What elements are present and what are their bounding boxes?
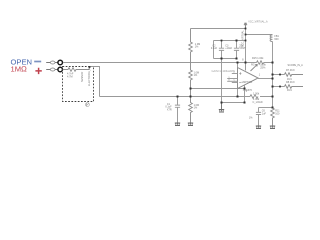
pin 8 power feed	[245, 63, 247, 71]
wire row2	[273, 86, 285, 88]
resistor R11 right column	[271, 108, 275, 126]
capacitor C3	[234, 41, 239, 59]
junction divider-feedback	[190, 88, 192, 90]
wire ferrite down to rail	[272, 42, 274, 63]
capacitor C6	[256, 108, 261, 127]
junction C3-bottom	[236, 58, 238, 60]
svg-text:LMP7701: LMP7701	[242, 81, 253, 84]
wire y58 cap bottom rail	[214, 58, 237, 60]
minus mark	[239, 82, 241, 84]
shield marker below box	[86, 103, 90, 107]
junction row2-lead	[279, 86, 281, 88]
svg-text:TANT: TANT	[239, 47, 246, 50]
pin 4 power drop	[244, 85, 246, 102]
resistor R2 top of divider	[189, 29, 193, 63]
ground under C6	[256, 126, 261, 129]
capacitor C2	[219, 41, 224, 59]
svg-text:100: 100	[275, 112, 280, 115]
op-amp U1 triangle	[238, 68, 259, 89]
junction divider-bus	[190, 96, 192, 98]
probe lug top	[46, 62, 58, 64]
svg-text:SCOPE_IN_A: SCOPE_IN_A	[288, 64, 304, 67]
plus mark	[239, 72, 241, 74]
junction inv-bus	[237, 96, 239, 98]
wire row1	[273, 74, 285, 76]
resistor R1 inside box	[63, 68, 89, 72]
wire bus	[100, 96, 273, 98]
svg-text:1MΩ: 1MΩ	[11, 64, 28, 73]
wire rail y28	[191, 28, 246, 30]
svg-text:R15 1.00k: R15 1.00k	[252, 57, 264, 60]
svg-text:600: 600	[274, 38, 279, 41]
wire minus feedback y88	[191, 88, 245, 90]
pot wiper arrow	[251, 64, 258, 71]
wire inv edge to bus	[237, 89, 239, 97]
svg-text:1.00k: 1.00k	[253, 92, 260, 95]
resistor R4 bottom of divider	[189, 97, 193, 124]
junction vcc-y40	[245, 40, 247, 42]
svg-text:ELECTRODE_A: ELECTRODE_A	[88, 68, 91, 86]
plus sign	[35, 68, 41, 74]
wire y40 cap rail	[214, 40, 246, 42]
svg-text:+10uF: +10uF	[225, 47, 232, 50]
svg-text:RG: RG	[251, 64, 255, 67]
junction row1-lead	[279, 74, 281, 76]
junction column-bus	[272, 96, 274, 98]
ground under R11	[270, 126, 275, 129]
connector pin bottom	[58, 67, 63, 72]
junction vcc-rail	[245, 62, 247, 64]
junction pin4-gndline	[244, 102, 246, 104]
potentiometer RG in rail	[257, 61, 264, 64]
power flag VCC_VIRTUAL_A	[244, 23, 247, 27]
junction column-y107	[272, 107, 274, 109]
resistor R6 in bus	[250, 95, 258, 99]
junction column-row1	[272, 74, 274, 76]
svg-text:SENSOR: SENSOR	[81, 71, 84, 82]
junction C2-bottom	[221, 58, 223, 60]
wire line3 gnd net	[222, 102, 245, 104]
pin 3 stub	[232, 73, 238, 75]
wire box pin jog	[89, 67, 99, 97]
ground under R4	[188, 123, 193, 126]
ferrite bead FB1	[270, 35, 272, 42]
minus sign	[34, 61, 41, 63]
junction C2-top	[221, 40, 223, 42]
label 1M ohm	[11, 64, 28, 73]
svg-text:0.1uF: 0.1uF	[211, 47, 218, 50]
resistor R3 mid of divider	[189, 63, 193, 97]
wire output	[258, 78, 273, 80]
junction vcc-y34	[245, 34, 247, 36]
resistor R8 row2	[284, 85, 303, 89]
svg-text:X7R: X7R	[167, 108, 172, 111]
svg-text:VCC_VIRTUAL_A: VCC_VIRTUAL_A	[248, 21, 268, 24]
gain note text	[212, 69, 235, 73]
wire y107 branch	[259, 107, 273, 109]
connector pin top	[58, 60, 63, 65]
dashed box electrode model	[63, 67, 94, 102]
pin RG1 stub	[227, 78, 237, 80]
junction C1-bus	[177, 96, 179, 98]
svg-text:49.9: 49.9	[287, 89, 292, 92]
wire cap gnd drop long	[221, 59, 223, 103]
junction box pin	[89, 66, 91, 68]
svg-text:R7 49.9: R7 49.9	[286, 69, 295, 72]
wire noninv edge feed	[237, 63, 239, 68]
junction C2-gndline	[221, 102, 223, 104]
pin 2 stub	[232, 82, 238, 84]
ground near line3	[219, 103, 224, 113]
wire y34 to ferrite	[246, 34, 273, 36]
wire left cap drop	[213, 41, 215, 59]
junction pin4-feedback	[244, 88, 246, 90]
pin RG2 stub	[227, 80, 237, 82]
ground under C1	[175, 123, 180, 126]
svg-text:R8 49.9: R8 49.9	[286, 81, 295, 84]
junction column-rail	[272, 62, 274, 64]
junction C3-top	[236, 40, 238, 42]
svg-text:C_LOAD: C_LOAD	[253, 101, 263, 104]
junction noninv-rail	[237, 62, 239, 64]
wire right column	[272, 63, 274, 109]
resistor R7 row1	[284, 73, 303, 77]
junction column-row2	[272, 86, 274, 88]
svg-text:25%: 25%	[260, 66, 266, 69]
svg-text:4.7M: 4.7M	[67, 76, 73, 79]
svg-text:GAIN=1+100kΩ/RG: GAIN=1+100kΩ/RG	[212, 69, 235, 73]
wire vcc column	[245, 28, 247, 71]
probe lug bottom	[46, 69, 58, 71]
svg-text:1uF: 1uF	[262, 112, 267, 115]
capacitor C1	[175, 97, 180, 124]
junction vcc-y28	[245, 28, 247, 30]
junction column-output	[272, 78, 274, 80]
label OPEN	[11, 57, 33, 66]
wire top rail	[63, 62, 272, 64]
